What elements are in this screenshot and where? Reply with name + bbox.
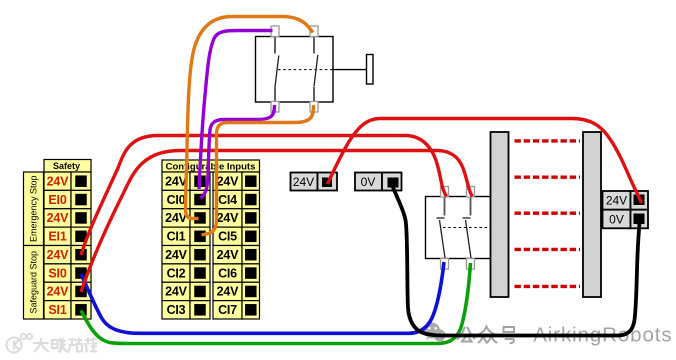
K1 contact 2 lead: [470, 197, 472, 216]
config input left row CI2: [162, 264, 210, 282]
K1 linkage dashed: [443, 227, 491, 229]
light curtain emitter bar: [491, 132, 509, 297]
S1 terminal pad top-left: [271, 26, 279, 37]
K1 terminal pad top-right: [467, 187, 475, 198]
S1 actuator rod: [333, 69, 367, 71]
svg-text:CI2: CI2: [167, 266, 186, 280]
svg-text:SI0: SI0: [48, 266, 66, 280]
wire orange CI 24V to S1 top: [186, 17, 314, 219]
S1 terminal pad bottom-right: [310, 102, 318, 113]
S1 terminal pad top-right: [310, 26, 318, 37]
svg-text:EI0: EI0: [48, 193, 66, 207]
svg-text:Safety: Safety: [53, 161, 80, 171]
svg-text:24V: 24V: [217, 248, 240, 262]
wire blue SI0 to K1: [81, 262, 444, 333]
K1 contact 2 tick: [463, 217, 471, 219]
light beam 2: [515, 175, 581, 178]
light beam 5: [515, 285, 581, 288]
safety row 24V: [44, 246, 91, 264]
K1 terminal pad top-left: [441, 187, 449, 198]
svg-text:24V: 24V: [47, 211, 70, 225]
svg-text:CI7: CI7: [218, 303, 237, 317]
safety row SI0: [44, 264, 91, 282]
wire red safety 24V to K1 contact 1: [81, 136, 447, 256]
svg-text:CI1: CI1: [167, 230, 186, 244]
wire green SI1 to K1: [81, 263, 471, 344]
config input right row CI5: [213, 227, 260, 245]
svg-text:Configurable Inputs: Configurable Inputs: [166, 161, 256, 172]
wire purple S1 bottom to CI0: [201, 105, 275, 199]
K1 contact 1 lead: [444, 197, 446, 216]
config input right row CI6: [213, 264, 260, 282]
safety row 24V: [44, 209, 91, 227]
config input left row CI1: [162, 227, 210, 245]
safety row EI0: [44, 190, 91, 208]
light curtain receiver bar: [583, 132, 601, 297]
config input right row 24V: [213, 172, 260, 190]
svg-text:CI6: CI6: [218, 266, 237, 280]
svg-text:24V: 24V: [293, 175, 314, 189]
svg-text:CI4: CI4: [218, 193, 237, 207]
safety block header: [44, 160, 91, 173]
svg-text:24V: 24V: [606, 194, 627, 208]
K1 contact 1 tick: [437, 217, 445, 219]
bottom-left watermark logo: [7, 334, 33, 353]
config input left row CI3: [162, 301, 210, 319]
config input right row CI7: [213, 301, 260, 319]
svg-text:CI5: CI5: [218, 230, 237, 244]
safety row 24V: [44, 172, 91, 190]
S1 mechanical linkage dashed: [278, 69, 333, 71]
svg-text:24V: 24V: [165, 285, 188, 299]
light beam 4: [515, 248, 581, 251]
config input right row 24V: [213, 246, 260, 264]
config input left row 24V: [162, 282, 210, 300]
configurable inputs header: [162, 160, 260, 172]
svg-text:EI1: EI1: [48, 230, 66, 244]
S1 contact 2 blade: [314, 55, 318, 87]
svg-text:24V: 24V: [217, 211, 240, 225]
watermark glyph zhong: [479, 326, 497, 343]
K1 contact 1 blade: [440, 220, 446, 258]
bottom-left watermark glyphs: [34, 338, 97, 352]
24V supply terminal: [291, 173, 338, 191]
config input left row 24V: [162, 209, 210, 227]
svg-text:Safeguard Stop: Safeguard Stop: [29, 251, 39, 314]
S1 terminal pad bottom-left: [271, 102, 279, 113]
K1 terminal pad bottom-left: [441, 259, 449, 270]
watermark icon: [424, 323, 445, 344]
svg-text:24V: 24V: [47, 285, 70, 299]
config input right row 24V: [213, 282, 260, 300]
wire red safety 24V to K1 contact 2: [81, 151, 472, 293]
config input right row 24V: [213, 209, 260, 227]
svg-text:24V: 24V: [217, 174, 240, 188]
svg-text:Emergency Stop: Emergency Stop: [29, 175, 39, 242]
config input right row CI4: [213, 190, 260, 208]
svg-text:24V: 24V: [165, 248, 188, 262]
svg-text:0V: 0V: [361, 175, 376, 189]
curtain connector 24V row: [603, 191, 649, 210]
S1 contact 2 leads: [313, 37, 315, 102]
wire black 0V supply to curtain 0V: [393, 186, 640, 336]
config input left row 24V: [162, 172, 210, 190]
curtain connector 0V row: [603, 210, 649, 229]
config input left row CI0: [162, 190, 210, 208]
safety row SI1: [44, 301, 91, 319]
emergency stop switch S1 body: [256, 37, 334, 103]
safety row EI1: [44, 227, 91, 245]
wire red 24V supply to curtain 24V: [328, 119, 642, 204]
emergency stop group cell: [24, 172, 44, 246]
light curtain relay K1 body: [426, 197, 492, 259]
svg-text:SI1: SI1: [48, 303, 66, 317]
0V supply terminal: [355, 173, 402, 191]
watermark glyph gong: [458, 328, 475, 342]
safety row 24V: [44, 282, 91, 300]
svg-text:CI3: CI3: [167, 303, 186, 317]
light beam 1: [515, 139, 581, 142]
svg-text:24V: 24V: [47, 174, 70, 188]
wire orange S1 bottom to CI1: [202, 105, 314, 235]
light beam 3: [515, 211, 581, 214]
config input left row 24V: [162, 246, 210, 264]
S1 actuator head: [367, 55, 374, 85]
svg-text:24V: 24V: [47, 248, 70, 262]
safeguard stop group cell: [24, 246, 44, 320]
svg-text:0V: 0V: [609, 213, 624, 227]
K1 terminal pad bottom-right: [467, 259, 475, 270]
svg-text:CI0: CI0: [167, 193, 186, 207]
svg-text:24V: 24V: [217, 285, 240, 299]
S1 contact 1 blade: [275, 56, 279, 88]
K1 contact 2 blade: [466, 220, 472, 258]
S1 contact 1 leads: [274, 37, 276, 102]
watermark glyph hao: [501, 327, 517, 343]
wire purple CI 24V to S1 top: [199, 31, 273, 190]
